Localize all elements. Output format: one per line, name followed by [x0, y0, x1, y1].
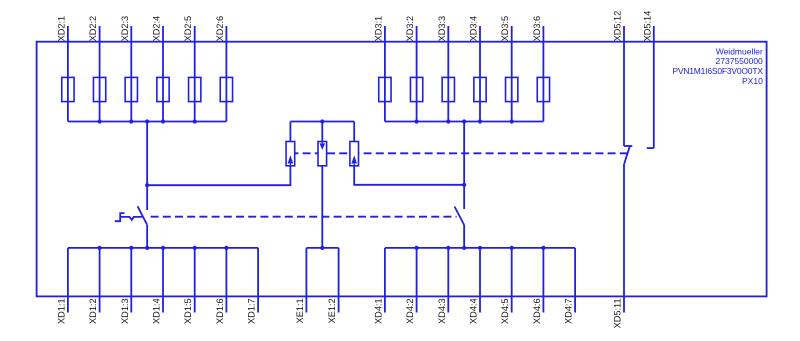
terminal XD1:7: [247, 248, 259, 324]
terminal XE1:1: [295, 248, 307, 324]
fuse for XD3:1: [379, 77, 391, 101]
terminal XD1:4: [152, 248, 164, 324]
svg-text:XD2:6: XD2:6: [215, 16, 225, 42]
svg-text:PX10: PX10: [742, 76, 763, 86]
svg-text:XD1:3: XD1:3: [120, 298, 130, 324]
svg-text:XD2:4: XD2:4: [152, 16, 162, 42]
svg-text:XD3:3: XD3:3: [437, 16, 447, 42]
svg-text:XD4:6: XD4:6: [532, 298, 542, 324]
svg-text:XD3:6: XD3:6: [532, 16, 542, 42]
svg-text:XD2:3: XD2:3: [120, 16, 130, 42]
fuse for XD2:5: [189, 77, 201, 101]
changeover contact (remote signal): [624, 146, 630, 164]
svg-text:Weidmueller: Weidmueller: [716, 46, 763, 56]
junctions on XD1 bus: [98, 246, 229, 250]
wire: XD1 group bus: [68, 247, 258, 249]
svg-text:XD3:4: XD3:4: [469, 16, 479, 42]
terminal XD1:6: [215, 248, 227, 324]
terminal XD4:5: [500, 248, 512, 324]
svg-text:XD1:5: XD1:5: [183, 298, 193, 324]
svg-text:XD3:1: XD3:1: [373, 16, 383, 42]
terminal XD5:12: [613, 11, 625, 146]
terminal XD4:4: [469, 248, 481, 324]
wire: XD2 bus tap down to contact: [146, 122, 148, 211]
svg-text:XD4:3: XD4:3: [437, 298, 447, 324]
junctions on XD4 bus: [415, 246, 546, 250]
svg-text:XD2:1: XD2:1: [56, 16, 66, 42]
terminal XD2:4: [152, 16, 164, 122]
mechanical linkage dashed line (arresters to remote-signal contact): [290, 152, 627, 154]
surge arrester F2 (middle): [318, 142, 327, 166]
fuse for XD3:5: [506, 77, 518, 101]
wire: arrester top connector: [290, 121, 354, 123]
svg-text:XD3:2: XD3:2: [405, 16, 415, 42]
svg-text:XD2:5: XD2:5: [183, 16, 193, 42]
svg-text:XD4:5: XD4:5: [500, 298, 510, 324]
svg-text:XD1:1: XD1:1: [56, 298, 66, 324]
wire: XD5:12 fixed contact hook: [624, 145, 632, 147]
disconnect contact (left, thermal): [115, 206, 147, 224]
fuse for XD2:1: [62, 77, 74, 101]
fuse for XD2:4: [157, 77, 169, 101]
terminal XD3:3: [437, 16, 449, 122]
svg-text:XD4:2: XD4:2: [405, 298, 415, 324]
terminal XD1:5: [183, 248, 195, 324]
junction right tap: [462, 183, 466, 187]
svg-text:XD5:14: XD5:14: [642, 11, 652, 42]
fuse for XD3:6: [537, 77, 549, 101]
terminal XD1:1: [56, 248, 68, 324]
fuse for XD3:2: [410, 77, 422, 101]
svg-text:XD1:7: XD1:7: [247, 298, 257, 324]
wire: right arrester to right tap: [354, 166, 464, 185]
wire: left arrester stem: [289, 122, 291, 142]
wire: right arrester stem: [353, 122, 355, 142]
svg-text:XE1:1: XE1:1: [295, 298, 305, 323]
terminal XD3:2: [405, 16, 417, 122]
terminal XD1:3: [120, 248, 132, 324]
junction arrester top: [320, 119, 324, 123]
svg-text:2737550000: 2737550000: [716, 56, 764, 66]
wire: middle arrester stem: [321, 122, 323, 142]
junctions on XD2 bus: [98, 119, 197, 123]
fuse for XD3:3: [442, 77, 454, 101]
fuse for XD3:4: [474, 77, 486, 101]
wire: XD3 bus tap down to contact: [463, 122, 465, 210]
svg-text:XD5:11: XD5:11: [613, 298, 623, 328]
terminal XD1:2: [88, 248, 100, 324]
svg-text:XD2:2: XD2:2: [88, 16, 98, 42]
wire: left arrester to left tap: [147, 166, 290, 185]
terminal XD2:3: [120, 16, 132, 122]
terminal XD2:6: [215, 16, 227, 122]
svg-text:XD3:5: XD3:5: [500, 16, 510, 42]
wire: XD4 group bus: [385, 247, 575, 249]
terminal XD3:4: [469, 16, 481, 122]
wire: XE1 bus: [306, 247, 338, 249]
wire: XD3 group bus: [385, 121, 544, 123]
terminal XE1:2: [327, 248, 339, 324]
svg-text:PVN1M1I6S0F3V0O0TX: PVN1M1I6S0F3V0O0TX: [672, 66, 763, 76]
svg-text:XD1:4: XD1:4: [152, 298, 162, 324]
terminal XD2:1: [56, 16, 68, 122]
fuse for XD2:2: [93, 77, 105, 101]
terminal XD4:6: [532, 248, 544, 324]
svg-text:XD4:4: XD4:4: [469, 298, 479, 324]
terminal XD5:14: [642, 11, 654, 148]
terminal XD4:7: [564, 248, 576, 324]
terminal XD4:1: [373, 248, 385, 324]
disconnect contact (right): [455, 207, 465, 226]
wire: middle arrester to XE1 bus: [321, 166, 323, 248]
svg-text:XD1:6: XD1:6: [215, 298, 225, 324]
surge arrester F1 (left): [286, 142, 295, 166]
terminal XD3:6: [532, 16, 544, 122]
terminal XD4:2: [405, 248, 417, 324]
part label: manufacturer and type: [672, 46, 763, 85]
wire: contact to XD1 bus: [146, 225, 148, 248]
surge arrester F3 (right): [350, 142, 359, 166]
terminal XD2:2: [88, 16, 100, 122]
fuse for XD2:3: [125, 77, 137, 101]
mechanical linkage dashed line (disconnect contacts): [151, 216, 457, 218]
svg-text:XD4:7: XD4:7: [564, 298, 574, 324]
terminal XD3:5: [500, 16, 512, 122]
wire: contact to XD4 bus: [463, 225, 465, 248]
svg-text:XD5:12: XD5:12: [613, 11, 623, 42]
terminal XD3:1: [373, 16, 385, 122]
junction left tap: [145, 183, 149, 187]
svg-text:XD1:2: XD1:2: [88, 298, 98, 324]
wire: XD5:14 fixed contact hook: [647, 147, 654, 149]
terminal XD4:3: [437, 248, 449, 324]
terminal XD2:5: [183, 16, 195, 122]
fuse for XD2:6: [220, 77, 232, 101]
wire: XD2 group bus: [68, 121, 227, 123]
wire: contact common to XD5:11: [623, 164, 625, 313]
junction XE1 bus: [320, 246, 324, 250]
junctions on XD3 bus: [415, 119, 514, 123]
svg-text:XD4:1: XD4:1: [373, 298, 383, 324]
svg-text:XE1:2: XE1:2: [327, 298, 337, 323]
